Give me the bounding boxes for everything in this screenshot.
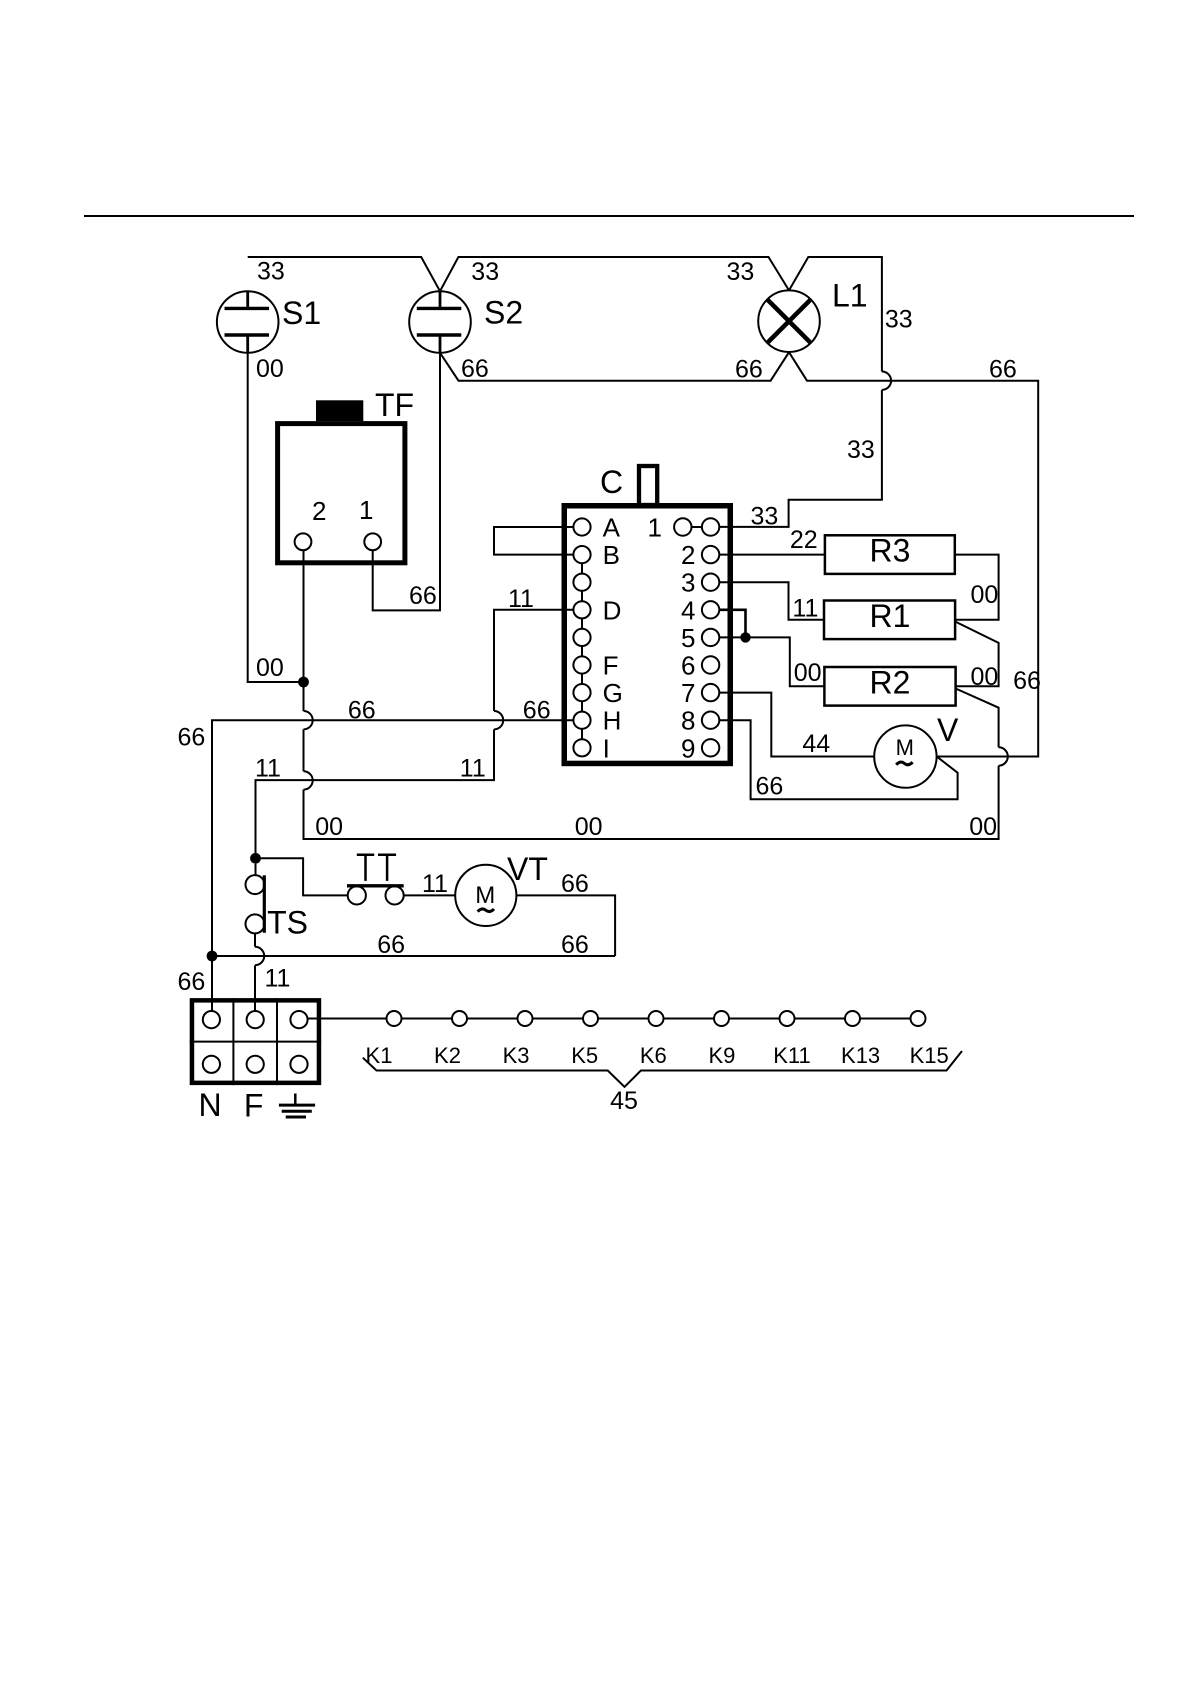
resistor R3 <box>825 533 955 574</box>
wire TT to VT <box>404 894 456 896</box>
C pin 1 link <box>692 526 702 528</box>
svg-text:66: 66 <box>735 356 763 384</box>
svg-text:66: 66 <box>989 356 1017 384</box>
svg-text:K11: K11 <box>773 1043 811 1068</box>
wire branch to TT <box>256 858 348 895</box>
svg-text:66: 66 <box>377 931 405 959</box>
svg-text:F: F <box>603 651 619 681</box>
svg-text:45: 45 <box>610 1087 638 1115</box>
svg-text:F: F <box>244 1088 264 1124</box>
node junction dot 11 branch <box>250 853 261 864</box>
svg-text:66: 66 <box>348 697 376 725</box>
switch S1 <box>217 291 321 353</box>
svg-text:1: 1 <box>359 495 373 525</box>
svg-text:K3: K3 <box>503 1043 530 1068</box>
wire pin8 66 to motor V bottom <box>719 720 957 799</box>
svg-text:TS: TS <box>267 905 308 941</box>
svg-text:33: 33 <box>751 503 779 531</box>
resistor R1 <box>824 598 955 639</box>
brace group 45 <box>363 1051 962 1087</box>
svg-text:66: 66 <box>461 355 489 383</box>
wire pin4 jumper down to pin5 <box>719 610 745 638</box>
svg-text:11: 11 <box>508 585 534 613</box>
wire 33 vertical down to pin 1 of C <box>719 390 882 527</box>
svg-text:33: 33 <box>885 306 913 334</box>
terminal block <box>190 998 322 1124</box>
svg-text:VT: VT <box>507 851 548 887</box>
svg-text:33: 33 <box>471 258 499 286</box>
svg-text:00: 00 <box>969 813 997 841</box>
svg-text:66: 66 <box>178 724 206 752</box>
resistor R2 <box>824 664 955 705</box>
svg-text:66: 66 <box>561 931 589 959</box>
wire terminal to K row <box>308 1018 911 1020</box>
wire R1 right diagonal loop 00 to R2 right <box>955 622 999 687</box>
svg-text:22: 22 <box>790 526 818 554</box>
wire net 66: S2 bottom to L1 bottom to right vertical to motor V <box>440 352 1038 756</box>
svg-text:66: 66 <box>409 582 437 610</box>
svg-text:2: 2 <box>681 540 695 570</box>
svg-text:33: 33 <box>727 258 755 286</box>
svg-text:66: 66 <box>178 968 206 996</box>
svg-text:6: 6 <box>681 651 695 681</box>
connector C box <box>564 464 730 763</box>
svg-text:B: B <box>603 540 620 570</box>
top horizontal rule <box>84 215 1134 217</box>
svg-text:11: 11 <box>255 755 281 783</box>
svg-text:A: A <box>603 513 621 543</box>
svg-text:66: 66 <box>756 772 784 800</box>
svg-text:7: 7 <box>681 678 695 708</box>
svg-text:K13: K13 <box>841 1043 880 1068</box>
svg-text:00: 00 <box>971 581 999 609</box>
wire net 33: S1 top to S2 top to L1 top <box>248 257 882 372</box>
svg-text:2: 2 <box>312 496 326 526</box>
wire crossover hump on 33 vertical at 66 line <box>882 372 891 390</box>
svg-text:3: 3 <box>681 568 695 598</box>
wire TF pin1 66 up to S2 bottom <box>373 353 440 611</box>
svg-text:H: H <box>603 706 622 736</box>
wire pin5 to R2 <box>719 637 824 686</box>
svg-text:N: N <box>198 1087 221 1123</box>
svg-text:M: M <box>896 735 914 760</box>
svg-text:00: 00 <box>794 659 822 687</box>
wire H exit 66 to left vertical <box>212 720 573 1011</box>
node junction dot left vertical / 66 bus <box>207 951 218 962</box>
wire pin7 44 to motor V <box>719 693 874 757</box>
svg-text:00: 00 <box>256 654 284 682</box>
component TF <box>278 387 414 563</box>
svg-text:66: 66 <box>561 870 589 898</box>
svg-text:66: 66 <box>1013 667 1041 695</box>
switch TT <box>347 855 404 905</box>
node junction dot S1/TF <box>298 677 309 688</box>
switch TS <box>246 864 308 941</box>
svg-text:K6: K6 <box>640 1043 667 1068</box>
svg-text:8: 8 <box>681 706 695 736</box>
svg-text:K15: K15 <box>910 1043 949 1068</box>
svg-text:R1: R1 <box>870 598 911 634</box>
wire R3 right loop 00 to R1 right <box>955 555 999 620</box>
svg-text:33: 33 <box>847 436 875 464</box>
svg-text:5: 5 <box>681 623 695 653</box>
svg-text:K9: K9 <box>708 1043 735 1068</box>
wire TS bottom to terminal with hump over 66 bus <box>255 933 264 1011</box>
C right pin circles 1-9 <box>674 518 719 756</box>
C left pin circles A-I <box>573 518 590 756</box>
wire pin3 to R1 <box>719 582 824 620</box>
svg-text:00: 00 <box>256 355 284 383</box>
svg-text:1: 1 <box>648 513 662 543</box>
wire D exit: down and left to TS junction <box>256 610 574 853</box>
svg-text:TF: TF <box>375 387 414 423</box>
motor V <box>874 712 959 788</box>
svg-text:R3: R3 <box>870 533 911 569</box>
node junction dot pin4/pin5 <box>740 632 750 642</box>
svg-text:9: 9 <box>681 733 695 763</box>
svg-text:G: G <box>603 678 623 708</box>
svg-text:11: 11 <box>460 755 486 783</box>
svg-text:R2: R2 <box>870 664 911 700</box>
C left pin chain links <box>581 563 583 739</box>
svg-text:K2: K2 <box>434 1043 461 1068</box>
svg-text:11: 11 <box>265 965 291 993</box>
wire S1 bottom down to junction <box>248 353 304 682</box>
svg-text:11: 11 <box>792 595 818 623</box>
svg-text:00: 00 <box>575 813 603 841</box>
svg-text:11: 11 <box>422 870 448 898</box>
wire pin2 to R3 <box>719 554 825 556</box>
K pin circles <box>387 1011 926 1026</box>
svg-text:V: V <box>937 712 959 748</box>
wire 66 bus <box>212 955 615 957</box>
svg-text:I: I <box>603 733 610 763</box>
svg-text:33: 33 <box>257 258 285 286</box>
wire VT right 66 down to bus <box>516 895 615 956</box>
wire A-B external loop <box>494 527 573 555</box>
wire TF pin2 00 down with humps, to 00 bus, to R2 right side <box>304 550 1008 839</box>
svg-text:D: D <box>603 595 622 625</box>
svg-text:44: 44 <box>802 730 830 758</box>
svg-text:K5: K5 <box>571 1043 598 1068</box>
lamp L1 <box>758 278 867 352</box>
switch S2 <box>409 291 523 353</box>
svg-text:C: C <box>600 464 623 500</box>
svg-text:66: 66 <box>523 697 551 725</box>
svg-text:L1: L1 <box>832 278 868 314</box>
motor VT <box>455 851 548 926</box>
svg-text:S2: S2 <box>484 294 523 330</box>
svg-text:00: 00 <box>315 813 343 841</box>
svg-text:S1: S1 <box>282 295 321 331</box>
svg-text:M: M <box>475 882 495 909</box>
svg-text:00: 00 <box>971 663 999 691</box>
svg-text:4: 4 <box>681 595 695 625</box>
ground symbol <box>279 1094 315 1118</box>
